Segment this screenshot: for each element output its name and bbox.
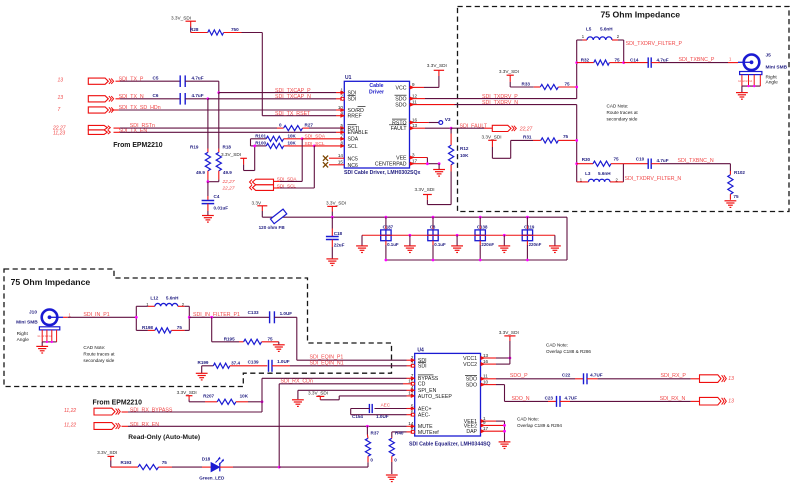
svg-text:750: 750 xyxy=(231,27,239,32)
svg-text:From EPM2210: From EPM2210 xyxy=(93,399,143,406)
wire L3/R30 right node xyxy=(622,164,624,182)
test point V3 xyxy=(439,121,443,125)
svg-text:G1 G2 G3 G4: G1 G2 G3 G4 xyxy=(738,81,753,83)
svg-text:SDO: SDO xyxy=(466,383,477,389)
wire SDI_TX_EN to U1 pin 6 xyxy=(114,131,121,133)
wire R18 bottom to node xyxy=(218,180,220,182)
svg-text:V3: V3 xyxy=(445,117,451,123)
dashed box 75 Ohm Impedance (bottom) xyxy=(4,269,392,387)
svg-text:22,27: 22,27 xyxy=(222,186,235,192)
svg-text:C138: C138 xyxy=(477,225,488,230)
svg-text:14: 14 xyxy=(338,153,344,158)
ground (R40) xyxy=(386,474,398,476)
J10 shield pins xyxy=(41,330,43,342)
connector J10 Mini SMB xyxy=(42,310,58,326)
wire SDI_RSTn to R27 xyxy=(114,127,121,129)
ground (rail) xyxy=(409,234,412,237)
svg-text:10: 10 xyxy=(483,379,489,384)
wire C23 to port xyxy=(570,400,691,402)
svg-text:3.3V_SDI: 3.3V_SDI xyxy=(499,330,519,335)
svg-text:4.7uF: 4.7uF xyxy=(657,58,669,63)
svg-text:75: 75 xyxy=(614,157,620,162)
ground (SPI_EN) xyxy=(297,390,299,399)
svg-text:3.3V_SDI: 3.3V_SDI xyxy=(308,391,328,396)
wire C133 to EQIN_P1 xyxy=(274,316,296,318)
resistor R195 75 xyxy=(211,317,213,342)
svg-text:11,23: 11,23 xyxy=(53,130,65,136)
svg-text:0: 0 xyxy=(370,458,373,463)
svg-text:3.3V_SDI: 3.3V_SDI xyxy=(171,16,191,21)
svg-text:Read-Only (Auto-Mute): Read-Only (Auto-Mute) xyxy=(128,434,200,441)
svg-text:U1: U1 xyxy=(345,75,352,81)
svg-text:5.6nH: 5.6nH xyxy=(166,296,179,301)
svg-text:12: 12 xyxy=(412,93,418,98)
wire 3.3V bus (bottom) xyxy=(386,259,567,261)
svg-text:Right: Right xyxy=(766,74,778,80)
svg-text:C10: C10 xyxy=(636,157,645,162)
node bus/C18 xyxy=(331,216,334,219)
svg-text:Overlap C188 & R286: Overlap C188 & R286 xyxy=(546,349,591,354)
svg-text:SCL: SCL xyxy=(348,144,358,150)
svg-text:SDI: SDI xyxy=(348,97,357,103)
wire C139 to EQIN_N1 xyxy=(272,365,290,367)
double port SDI_SDA / SDI_SCL xyxy=(253,179,274,185)
node R19/R18 junction 22,27 refs xyxy=(207,180,210,183)
svg-text:R30: R30 xyxy=(582,157,591,162)
svg-text:secondary side: secondary side xyxy=(607,117,638,122)
svg-text:4.7uF: 4.7uF xyxy=(192,93,204,98)
svg-text:ENABLE: ENABLE xyxy=(348,130,369,136)
port 13 SDI_RX_P xyxy=(700,375,722,383)
svg-text:75 Ohm Impedance: 75 Ohm Impedance xyxy=(11,277,91,287)
power 3.3V_SDI (U1 VCC) xyxy=(438,76,440,87)
resistor R19 49.9 xyxy=(207,99,209,149)
svg-text:75: 75 xyxy=(268,336,274,341)
svg-text:13: 13 xyxy=(58,95,64,101)
ground (R102) xyxy=(725,200,737,202)
wire SCL port to pin8 net xyxy=(274,187,280,189)
svg-text:SDI_TX_EN: SDI_TX_EN xyxy=(119,128,148,134)
svg-text:SDI_RX_EN: SDI_RX_EN xyxy=(130,422,159,428)
svg-text:Mini SMB: Mini SMB xyxy=(16,320,38,326)
svg-text:CAD Note:: CAD Note: xyxy=(546,343,568,348)
svg-text:22,27: 22,27 xyxy=(519,126,533,132)
svg-text:4.7uF: 4.7uF xyxy=(657,158,669,163)
wire C5 to TXCAP_P corner xyxy=(185,80,219,82)
svg-text:AEC+: AEC+ xyxy=(418,406,432,412)
svg-text:3.3V: 3.3V xyxy=(252,200,263,205)
svg-text:SDI_TXDRV_FILTER_P: SDI_TXDRV_FILTER_P xyxy=(626,41,683,47)
svg-text:9: 9 xyxy=(483,420,486,425)
svg-text:Driver: Driver xyxy=(369,89,384,95)
wire C154 left to AEC- xyxy=(351,408,370,410)
svg-text:VCC1: VCC1 xyxy=(463,356,477,362)
wire J5 shield bus xyxy=(742,85,760,87)
svg-text:NC6: NC6 xyxy=(348,163,358,169)
wire ground rail (feedthrough caps) xyxy=(362,234,555,236)
ferrite bead L4 120 ohm FB xyxy=(270,209,286,224)
wire AUTO_SLEEP to U4 pin 12 xyxy=(339,395,406,397)
svg-text:3.3V_SDI: 3.3V_SDI xyxy=(326,201,346,206)
svg-text:75 Ohm Impedance: 75 Ohm Impedance xyxy=(600,9,680,19)
port 22,27 SDI_FAULT xyxy=(492,125,511,131)
svg-text:10K: 10K xyxy=(288,133,297,138)
svg-text:J10: J10 xyxy=(29,309,37,315)
svg-text:R207: R207 xyxy=(203,394,214,399)
svg-text:3.3V_SDI: 3.3V_SDI xyxy=(97,450,117,455)
svg-text:10K: 10K xyxy=(460,153,469,158)
svg-text:Green_LED: Green_LED xyxy=(199,475,225,480)
svg-text:AEC-: AEC- xyxy=(418,413,431,419)
resistor R30 75 xyxy=(575,162,578,165)
ground (rail right) xyxy=(554,235,556,246)
svg-text:C4: C4 xyxy=(214,194,220,199)
node R33/TXDRV_P xyxy=(575,86,578,89)
wire BYPASS to U4 pin 7 xyxy=(122,411,129,413)
svg-text:3.3V_SDI: 3.3V_SDI xyxy=(415,187,435,192)
svg-text:Angle: Angle xyxy=(17,337,30,343)
svg-text:3.3V_SDI: 3.3V_SDI xyxy=(482,134,502,139)
svg-text:Route traces at: Route traces at xyxy=(83,351,115,356)
ground (C4) xyxy=(202,215,214,217)
svg-text:1.0UF: 1.0UF xyxy=(280,311,293,316)
svg-text:R33: R33 xyxy=(522,81,531,86)
wire L5/R32 right node xyxy=(623,40,625,63)
node R31/TXDRV_N xyxy=(575,139,578,142)
capacitor C187 0.1uF (feedthrough) xyxy=(385,216,388,219)
svg-text:R40: R40 xyxy=(395,430,404,435)
wire L12/R198 loop xyxy=(135,306,137,330)
svg-text:SDI Cable Equalizer, LMH0344SQ: SDI Cable Equalizer, LMH0344SQ xyxy=(409,441,491,447)
node SDI_TXCAP_N xyxy=(207,97,210,100)
svg-text:11: 11 xyxy=(412,99,417,104)
svg-text:13: 13 xyxy=(728,398,734,404)
svg-text:CAD Note:: CAD Note: xyxy=(517,417,539,422)
svg-text:R28: R28 xyxy=(190,27,199,32)
wire C6 to TXCAP_N node xyxy=(185,98,208,100)
wire J10 shield bus xyxy=(42,341,56,343)
svg-text:17: 17 xyxy=(483,426,489,431)
svg-text:R101: R101 xyxy=(255,133,266,138)
svg-text:5.6nH: 5.6nH xyxy=(600,27,613,32)
svg-text:CAD Note:: CAD Note: xyxy=(607,104,629,109)
svg-text:Right: Right xyxy=(17,331,29,337)
ground (R199) xyxy=(201,366,203,374)
svg-text:C133: C133 xyxy=(248,310,259,315)
svg-text:C187: C187 xyxy=(383,225,394,230)
svg-text:13: 13 xyxy=(58,77,64,83)
svg-text:120 ohm FB: 120 ohm FB xyxy=(259,225,286,230)
svg-text:CD: CD xyxy=(418,382,426,388)
wire C14 to J5 xyxy=(660,62,728,64)
svg-text:75: 75 xyxy=(565,81,571,86)
svg-text:VCC2: VCC2 xyxy=(463,362,477,368)
wire SDA port to pin7 net xyxy=(274,180,280,182)
wire C22 to port xyxy=(598,378,691,380)
svg-text:L3: L3 xyxy=(585,171,591,176)
resistor R27 0 ohm xyxy=(277,127,284,129)
wire 3.3V bus (top) xyxy=(262,216,567,218)
svg-text:10K: 10K xyxy=(288,141,297,146)
svg-text:J5: J5 xyxy=(766,52,772,58)
svg-text:49.9: 49.9 xyxy=(196,170,205,175)
svg-text:SDI_RX_P: SDI_RX_P xyxy=(661,373,687,379)
svg-text:DAP: DAP xyxy=(466,429,477,435)
svg-text:11,22: 11,22 xyxy=(64,422,76,428)
svg-text:R37: R37 xyxy=(371,430,380,435)
svg-text:5.6nH: 5.6nH xyxy=(598,171,611,176)
node R207/BYPASS xyxy=(261,400,264,403)
connector J5 Mini SMB xyxy=(744,55,760,71)
svg-text:FAULT: FAULT xyxy=(391,126,408,132)
svg-text:R19: R19 xyxy=(190,145,199,150)
svg-text:SDI_TXDRV_FILTER_N: SDI_TXDRV_FILTER_N xyxy=(625,176,682,182)
svg-text:220nF: 220nF xyxy=(529,242,542,247)
svg-text:R12: R12 xyxy=(460,146,469,151)
svg-text:Route traces at: Route traces at xyxy=(607,110,639,115)
svg-text:C23: C23 xyxy=(545,396,554,401)
svg-text:3.3V_SDI: 3.3V_SDI xyxy=(177,390,197,395)
svg-text:CAD Note:: CAD Note: xyxy=(83,345,105,350)
svg-text:L12: L12 xyxy=(150,296,158,301)
capacitor C8 0.1uF (feedthrough) xyxy=(432,216,435,219)
resistor R102 75 xyxy=(729,171,731,175)
svg-text:SDI_IN_P1: SDI_IN_P1 xyxy=(83,312,109,318)
svg-text:C18: C18 xyxy=(334,231,343,236)
ground (R195) xyxy=(278,342,280,345)
svg-text:Overlap C189 & R294: Overlap C189 & R294 xyxy=(517,423,562,428)
svg-text:C8: C8 xyxy=(430,225,436,230)
svg-text:SDI_EQIN_P1: SDI_EQIN_P1 xyxy=(310,354,344,360)
ground (rail left) xyxy=(361,235,363,246)
svg-text:4.7uF: 4.7uF xyxy=(192,76,204,81)
svg-text:0: 0 xyxy=(279,123,282,128)
wire J10 pin1 SDI_IN_P1 xyxy=(63,316,68,318)
ground (rail) xyxy=(503,234,506,237)
svg-text:75: 75 xyxy=(733,194,739,199)
port 13 SDI_RX_N xyxy=(700,397,722,405)
resistor R12 10K xyxy=(450,128,452,133)
power 3.3V_SDI (R12 pullup) xyxy=(426,195,428,200)
wire R12 to 3.3V_SDI xyxy=(450,172,452,205)
capacitor C18 22uF xyxy=(331,217,333,228)
svg-text:Angle: Angle xyxy=(766,80,779,86)
svg-text:16: 16 xyxy=(483,359,489,364)
resistor R18 49.9 xyxy=(218,93,220,149)
svg-text:R195: R195 xyxy=(224,337,235,342)
svg-text:10K: 10K xyxy=(240,394,249,399)
svg-text:75: 75 xyxy=(615,58,621,63)
svg-text:0: 0 xyxy=(394,458,397,463)
svg-text:0.1uF: 0.1uF xyxy=(434,242,446,247)
svg-text:R31: R31 xyxy=(523,134,532,139)
svg-text:220nF: 220nF xyxy=(481,242,494,247)
svg-text:AEC: AEC xyxy=(381,402,391,407)
ground (U4 VEE) xyxy=(499,441,511,443)
wire pullup bracket xyxy=(250,139,252,146)
wire LED cathode xyxy=(220,466,233,468)
resistor R31 75 xyxy=(533,139,541,141)
svg-text:SDA: SDA xyxy=(348,137,359,143)
svg-text:D18: D18 xyxy=(202,456,211,461)
svg-text:C14: C14 xyxy=(630,58,639,63)
power 3.3V_SDI (U4 VCC) xyxy=(509,357,512,360)
svg-text:0.01uF: 0.01uF xyxy=(214,206,229,211)
svg-text:17: 17 xyxy=(412,159,418,164)
op-amp U1 SDI Cable Driver LMH0302SQx xyxy=(344,81,409,168)
svg-text:SDI_TXBNC_N: SDI_TXBNC_N xyxy=(678,158,714,164)
resistor R37 0 ohm xyxy=(366,425,369,428)
wire TXCAP_P to U1 pin 1 xyxy=(219,92,336,94)
svg-text:R18: R18 xyxy=(223,145,232,150)
U1 pin 15 NC6 (no connect) xyxy=(329,164,344,166)
svg-text:VEE: VEE xyxy=(396,155,407,161)
svg-text:C6: C6 xyxy=(153,93,159,98)
resistor R33 75 xyxy=(534,86,541,88)
node FAULT xyxy=(450,127,453,130)
svg-text:SDI_TXDRV_N: SDI_TXDRV_N xyxy=(482,100,518,106)
svg-text:75: 75 xyxy=(563,134,569,139)
svg-text:1.0UF: 1.0UF xyxy=(277,359,290,364)
svg-text:9: 9 xyxy=(412,82,415,87)
ground (J10) xyxy=(41,342,43,347)
svg-text:22,27: 22,27 xyxy=(222,179,235,185)
svg-text:C22: C22 xyxy=(562,373,571,378)
svg-text:R100: R100 xyxy=(255,141,266,146)
svg-text:From EPM2210: From EPM2210 xyxy=(113,142,163,149)
svg-text:SDI Cable Driver, LMH0302SQx: SDI Cable Driver, LMH0302SQx xyxy=(344,170,421,176)
svg-text:0.1uF: 0.1uF xyxy=(387,242,399,247)
wire TXDRV_N xyxy=(455,104,577,106)
U1 pin 14 NC5 (no connect) xyxy=(329,157,344,159)
svg-text:15: 15 xyxy=(338,160,344,165)
wire AEC- to U4 pin 6 xyxy=(351,414,407,416)
ground (J5) xyxy=(741,86,743,93)
ground (C18) xyxy=(326,258,338,260)
wire TXDRV_P xyxy=(425,98,577,100)
svg-text:13: 13 xyxy=(728,376,734,382)
svg-text:SDO_N: SDO_N xyxy=(512,396,530,402)
svg-text:7: 7 xyxy=(58,107,61,113)
svg-text:75: 75 xyxy=(162,460,168,465)
svg-text:49.9: 49.9 xyxy=(223,170,232,175)
wire TXCAP_N to U1 pin 2 xyxy=(208,98,336,100)
svg-text:4.7UF: 4.7UF xyxy=(590,373,603,378)
svg-text:U4: U4 xyxy=(417,347,424,353)
wire port to C5 xyxy=(116,80,121,82)
svg-text:3.3V_SDI: 3.3V_SDI xyxy=(499,69,519,74)
wire SPI_EN to U4 pin 4 xyxy=(298,389,407,391)
capacitor C138 220nF (feedthrough) xyxy=(479,216,482,219)
svg-text:SDO: SDO xyxy=(395,103,406,109)
svg-text:R102: R102 xyxy=(734,170,745,175)
svg-text:SDI_TX_RSET: SDI_TX_RSET xyxy=(275,111,311,117)
svg-text:AUTO_SLEEP: AUTO_SLEEP xyxy=(418,394,452,400)
svg-text:SDI: SDI xyxy=(418,364,427,370)
svg-text:SDI_EQIN_N1: SDI_EQIN_N1 xyxy=(310,360,344,366)
svg-text:3.3V_SDI: 3.3V_SDI xyxy=(221,152,241,157)
wire port to C6 xyxy=(116,98,121,100)
svg-text:3.3V_SDI: 3.3V_SDI xyxy=(427,63,447,68)
capacitor C119 220nF (feedthrough) xyxy=(526,216,529,219)
wire R28 to RREF (SDI_TX_RSET) xyxy=(242,32,263,34)
svg-text:11: 11 xyxy=(483,374,488,379)
wire CDn to U4 pin 15 xyxy=(278,384,280,467)
svg-text:C5: C5 xyxy=(153,76,159,81)
svg-text:C139: C139 xyxy=(248,360,259,365)
resistor R40 0 ohm xyxy=(407,431,415,433)
svg-text:CENTERPAD: CENTERPAD xyxy=(375,162,407,168)
resistor R32 75 xyxy=(575,61,578,64)
J5 shield pins xyxy=(741,75,743,87)
svg-text:R32: R32 xyxy=(581,58,590,63)
wire R27 to U1 pin 5 xyxy=(309,127,344,129)
svg-text:G1 G2 G3 G4: G1 G2 G3 G4 xyxy=(38,336,53,338)
svg-text:R27: R27 xyxy=(305,123,314,128)
node SDI_TXCAP_P xyxy=(217,91,220,94)
svg-text:secondary side: secondary side xyxy=(83,358,114,363)
svg-text:MUTEref: MUTEref xyxy=(418,430,439,436)
svg-text:C119: C119 xyxy=(524,225,535,230)
svg-text:VCC: VCC xyxy=(396,85,407,91)
wire RX_EN / MUTE line xyxy=(122,425,129,427)
svg-text:3: 3 xyxy=(412,152,415,157)
wire filter node to C133 xyxy=(189,316,269,318)
svg-text:11,22: 11,22 xyxy=(64,408,76,414)
svg-text:SDI_SDA: SDI_SDA xyxy=(277,176,298,181)
svg-text:Mini SMB: Mini SMB xyxy=(766,65,788,71)
dashed box 75 Ohm Impedance (top) xyxy=(458,7,790,212)
svg-text:R198: R198 xyxy=(142,325,153,330)
svg-text:13: 13 xyxy=(483,353,489,358)
wire bus right edge xyxy=(566,217,568,260)
svg-text:13: 13 xyxy=(412,123,418,128)
op-amp U4 SDI Cable Equalizer LMH0344SQ xyxy=(415,353,481,436)
svg-text:Cable: Cable xyxy=(369,83,383,89)
svg-text:R193: R193 xyxy=(121,460,132,465)
svg-text:R199: R199 xyxy=(198,360,209,365)
svg-text:NC5: NC5 xyxy=(348,156,358,162)
svg-text:L5: L5 xyxy=(586,27,592,32)
capacitor C4 0.01uF xyxy=(207,182,209,196)
svg-text:RREF: RREF xyxy=(348,114,362,120)
wire C10 to R102 xyxy=(660,163,730,165)
ground (U1 VEE) xyxy=(438,164,440,170)
wire SD_HDn to U1 pin 10 xyxy=(112,109,119,111)
svg-text:4.7UF: 4.7UF xyxy=(565,396,578,401)
svg-text:22uF: 22uF xyxy=(334,242,345,247)
svg-text:75: 75 xyxy=(177,325,183,330)
ground (rail) xyxy=(456,234,459,237)
svg-text:16: 16 xyxy=(412,117,418,122)
resistor R28 750 xyxy=(191,32,208,34)
svg-text:37.4: 37.4 xyxy=(231,360,240,365)
